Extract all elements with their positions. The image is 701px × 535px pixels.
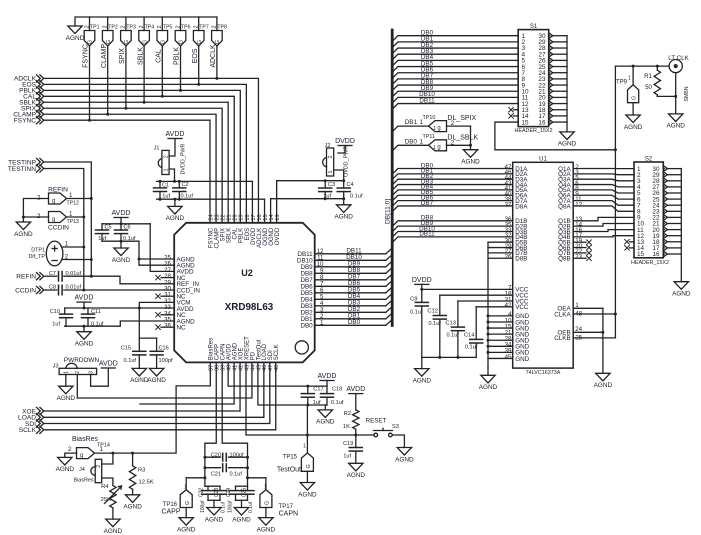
svg-text:1: 1 xyxy=(163,169,169,172)
svg-text:GND: GND xyxy=(515,356,529,363)
wire C5/C6 bottom bus to U2 pins 25/26 xyxy=(102,241,174,265)
wire TP5 to CAL xyxy=(161,46,163,96)
svg-text:S3: S3 xyxy=(392,424,399,430)
ground AGND (TP15) xyxy=(300,483,314,491)
ground AGND (C5/C6) xyxy=(120,241,122,248)
wire U1 GND pin 10 to rail xyxy=(488,321,513,323)
wire C10/C11 top bus to U2 pin33 AVDD xyxy=(65,307,175,309)
wire CLKA stub xyxy=(573,313,615,315)
wire C24/C25 ground bus xyxy=(236,499,248,501)
capacitor C20 100pf xyxy=(205,456,221,458)
svg-text:15: 15 xyxy=(522,119,530,126)
svg-text:REFIN: REFIN xyxy=(16,274,36,281)
svg-text:U2: U2 xyxy=(241,268,253,278)
wire DB11 to U1 D4B xyxy=(392,237,513,243)
svg-text:G: G xyxy=(179,40,185,44)
capacitor C22 100pf xyxy=(205,485,220,487)
ground AGND (TP9) xyxy=(626,115,640,123)
capacitor C1 1uf xyxy=(159,181,161,188)
test point TP2 xyxy=(107,17,109,31)
S1 right stub pin 26 xyxy=(549,59,550,61)
wire U1 Q8A to S2 pin 8 xyxy=(573,206,634,211)
svg-text:TP12: TP12 xyxy=(67,201,80,207)
test point TP4 xyxy=(143,17,145,31)
S2 right stub pin 17 xyxy=(663,247,664,249)
wire R1 to connector ground xyxy=(657,95,675,97)
S2 right stub pin 27 xyxy=(663,186,664,188)
svg-text:C13: C13 xyxy=(445,320,456,326)
wire U1 Q1B to S2 pin 9 xyxy=(573,217,634,220)
svg-text:ADCLK: ADCLK xyxy=(210,44,217,68)
wire DB0 to S1 pin 1 xyxy=(392,36,518,42)
wire DB2 to S1 pin 3 xyxy=(392,48,518,54)
wire TP10 pin2 to ground rail xyxy=(447,125,471,127)
svg-text:g: g xyxy=(80,453,83,459)
svg-text:C14: C14 xyxy=(464,333,475,339)
ground AGND (C19) xyxy=(349,463,363,471)
svg-text:74LVC16373A: 74LVC16373A xyxy=(526,370,561,376)
svg-text:C25: C25 xyxy=(242,488,248,497)
wire DB6 from U2 to bus xyxy=(315,285,386,287)
svg-text:DTP1: DTP1 xyxy=(31,248,45,254)
wire DB5 to U1 D6A xyxy=(392,195,513,201)
wire U2 AVDD pin to C17/C18 xyxy=(228,362,327,386)
svg-text:1uf: 1uf xyxy=(162,193,170,199)
S2 right stub pin 18 xyxy=(663,241,664,243)
svg-text:S1: S1 xyxy=(530,24,538,30)
svg-text:G: G xyxy=(197,40,203,44)
wire S1 pin15 to clock net xyxy=(495,122,616,150)
S1 right stub pin 27 xyxy=(549,53,550,55)
S1 right stub pin 30 xyxy=(549,35,550,37)
svg-text:TESTINN: TESTINN xyxy=(8,166,36,173)
test point TP5 xyxy=(161,17,163,31)
connector S1 HEADER_15X2 xyxy=(518,30,549,127)
capacitor C2 0.1uf xyxy=(178,181,180,188)
svg-text:OVDD_PWR: OVDD_PWR xyxy=(344,146,350,177)
svg-text:16: 16 xyxy=(652,251,660,258)
svg-text:AGND: AGND xyxy=(461,159,480,166)
svg-text:1: 1 xyxy=(433,145,436,151)
wire LOAD to U2 xyxy=(44,362,264,417)
svg-text:TP6: TP6 xyxy=(181,25,191,31)
svg-text:TP9: TP9 xyxy=(616,79,628,85)
wire J1 pin1 to bus xyxy=(169,169,174,181)
svg-text:AVDD: AVDD xyxy=(318,373,337,380)
wire S3 to ground xyxy=(392,435,404,448)
wire VCC row2 to C12 xyxy=(440,294,513,296)
svg-text:TP11: TP11 xyxy=(423,134,435,140)
wire U1 Q6A to S2 pin 6 xyxy=(573,195,634,199)
ground AGND (R4) xyxy=(106,519,120,527)
power AVDD (C17/C18) xyxy=(320,380,334,382)
wire U1 GND pin 34 to rail xyxy=(488,345,513,347)
svg-text:AGND: AGND xyxy=(672,291,691,298)
svg-text:1: 1 xyxy=(433,126,436,132)
svg-text:J2: J2 xyxy=(325,143,331,149)
S2 pin 13 no-connect xyxy=(630,241,635,243)
svg-text:g: g xyxy=(52,217,55,223)
S1 right stub pin 29 xyxy=(549,41,550,43)
S1 right stub pin 19 xyxy=(549,103,550,105)
svg-text:0.1uf: 0.1uf xyxy=(410,309,423,315)
wire PWRDOWN net to U2 PD pin xyxy=(77,362,252,398)
wire TP14 net to J4 pin2 xyxy=(102,453,113,464)
svg-text:1uf: 1uf xyxy=(52,322,60,328)
svg-text:2: 2 xyxy=(68,446,72,453)
svg-text:CCDIN: CCDIN xyxy=(15,287,36,294)
ground AGND (C24/C25) xyxy=(234,508,248,516)
ground AGND (C3/C4) xyxy=(343,199,345,205)
ground AGND (U1 GND rail) xyxy=(487,367,489,375)
S1 right stub pin 23 xyxy=(549,78,550,80)
wire DB9 to U1 D2B xyxy=(392,226,513,232)
svg-text:D8A: D8A xyxy=(515,203,528,210)
svg-text:1: 1 xyxy=(328,171,334,174)
svg-text:DB11: DB11 xyxy=(419,97,435,104)
svg-text:12: 12 xyxy=(575,201,582,208)
test point TP10 DL_SPIX xyxy=(429,121,447,132)
svg-text:0.1uf: 0.1uf xyxy=(230,471,243,477)
svg-text:TP8: TP8 xyxy=(217,25,227,31)
wire TP16 stub xyxy=(186,477,205,479)
wire U2 AGND pin 41 xyxy=(140,362,234,404)
ground AGND (J3) xyxy=(59,386,73,394)
svg-text:12.5K: 12.5K xyxy=(139,479,154,485)
wire R4 to ground xyxy=(112,508,114,519)
svg-text:AGND: AGND xyxy=(347,472,366,479)
svg-text:C1: C1 xyxy=(162,183,169,189)
S2 right stub pin 26 xyxy=(663,192,664,194)
wire DB8 from U2 to bus xyxy=(315,272,386,274)
wire VCC row4 to C14 xyxy=(476,306,513,308)
wire TESTINN vertical xyxy=(44,169,84,291)
svg-text:0.1uf: 0.1uf xyxy=(331,400,344,406)
wire OGND bottom bus (U2 OGND pin to C3/C4) xyxy=(270,199,272,223)
svg-text:CAPN: CAPN xyxy=(279,511,298,518)
wire ADCLK to U2 xyxy=(44,78,259,222)
svg-text:C16: C16 xyxy=(159,346,169,352)
resistor R2 1K xyxy=(355,394,357,410)
svg-text:TP7: TP7 xyxy=(199,25,209,31)
S2 right stub pin 21 xyxy=(663,223,664,225)
svg-text:C4: C4 xyxy=(347,182,354,188)
wire U1 GND pin 39 to rail xyxy=(488,351,513,353)
svg-text:2: 2 xyxy=(96,465,102,468)
wire TP3 to SPIX xyxy=(125,46,127,108)
wire DB1 from U2 to bus xyxy=(315,318,386,320)
capacitor C16 100pf xyxy=(156,338,158,351)
svg-text:HEADER_15X2: HEADER_15X2 xyxy=(514,128,552,134)
svg-text:OVDD: OVDD xyxy=(275,227,281,245)
wire DB7 to S1 pin 8 xyxy=(392,79,518,85)
S2 right stub pin 29 xyxy=(663,174,664,176)
test point TP9 xyxy=(632,66,634,85)
wire U1 unused D5B-D8B ground rail xyxy=(488,241,513,243)
svg-text:TP1: TP1 xyxy=(90,25,100,31)
svg-text:C19: C19 xyxy=(343,441,353,447)
wire U1 Q2A to S2 pin 2 xyxy=(573,173,634,176)
wire decoupling ground bus xyxy=(422,356,476,358)
svg-text:AGND: AGND xyxy=(66,35,85,42)
svg-text:AGND: AGND xyxy=(14,231,33,238)
svg-text:AGND: AGND xyxy=(413,377,432,384)
resistor R3 12.5K xyxy=(132,453,134,466)
wire DB8 to S1 pin 9 xyxy=(392,85,518,91)
wire DB4 to U1 D5A xyxy=(392,190,513,196)
svg-text:CCDIN: CCDIN xyxy=(48,225,69,232)
wire DB10 from U2 to bus xyxy=(315,259,386,261)
svg-text:0.1uf: 0.1uf xyxy=(350,193,363,199)
svg-text:C5: C5 xyxy=(105,225,112,231)
wire CAL to U2 xyxy=(44,96,235,222)
svg-text:48: 48 xyxy=(274,365,280,371)
svg-text:13: 13 xyxy=(275,214,281,220)
S1 right stub pin 28 xyxy=(549,47,550,49)
wire DTP1 pin2 xyxy=(62,259,92,261)
wire XRESET net to R2/S3 xyxy=(246,362,374,435)
svg-text:DB7: DB7 xyxy=(421,200,434,207)
power DVDD (U1) xyxy=(415,283,429,285)
wire U1 Q7A to S2 pin 7 xyxy=(573,201,634,206)
svg-text:NC: NC xyxy=(177,325,187,332)
capacitor C25 0.1uf xyxy=(247,486,249,490)
wire OGND bottom bus (C1/C2 to U2 OGND pin) xyxy=(157,198,265,200)
svg-text:37: 37 xyxy=(505,201,512,208)
svg-text:SCLK: SCLK xyxy=(19,427,37,434)
svg-text:AGND: AGND xyxy=(166,215,185,222)
wire TP1 to FSYNC xyxy=(89,46,91,120)
svg-text:AGND: AGND xyxy=(112,257,131,264)
svg-text:U1: U1 xyxy=(539,157,547,163)
ground AGND (C9-C14) xyxy=(421,357,423,368)
ground AGND (TP10/TP11) xyxy=(463,150,477,158)
wire C17/C18 ground bus xyxy=(308,404,327,406)
svg-text:G: G xyxy=(88,40,94,44)
wire FSYNC to U2 xyxy=(44,120,210,223)
wire U1 GND pin 45 to rail xyxy=(488,357,513,359)
wire AVDD stem xyxy=(120,218,122,224)
wire TP12 pin2 xyxy=(23,199,48,223)
svg-text:G: G xyxy=(215,40,221,44)
wire C5/C6 top bus to U2 pin27 xyxy=(102,223,150,225)
svg-text:FSYNC: FSYNC xyxy=(14,117,37,124)
test point TP1 xyxy=(89,17,91,31)
test point TP12 xyxy=(49,193,67,204)
wire DB4 from U2 to bus xyxy=(315,298,386,300)
svg-text:TP4: TP4 xyxy=(145,25,155,31)
capacitor C6 0.1uf xyxy=(120,224,122,230)
svg-text:AGND: AGND xyxy=(257,526,276,533)
wire DB3 to S1 pin 4 xyxy=(392,54,518,60)
wire SDI to U2 xyxy=(44,362,270,423)
svg-text:C6: C6 xyxy=(124,224,131,230)
svg-text:AGND: AGND xyxy=(123,504,142,511)
svg-text:DB0: DB0 xyxy=(300,323,313,330)
svg-text:g: g xyxy=(52,198,55,204)
ground AGND (C16) xyxy=(149,368,163,376)
svg-text:AGND: AGND xyxy=(57,395,76,402)
wire DB6 to U1 D7A xyxy=(392,201,513,207)
S2 right stub pin 22 xyxy=(663,216,664,218)
svg-text:CLKB: CLKB xyxy=(554,335,570,342)
wire LT CLK to ground xyxy=(675,73,677,114)
U1 Q5B no-connect xyxy=(573,241,586,243)
capacitor C5 1uf xyxy=(101,224,103,230)
wire OEA to ground rail xyxy=(573,307,603,309)
wire OEA/OEB ground rail xyxy=(602,308,604,373)
S2 right stub pin 30 xyxy=(663,168,664,170)
capacitor C15 0.1uf xyxy=(133,350,146,352)
resistor R1 50 xyxy=(656,66,658,70)
S1 right stub pin 21 xyxy=(549,90,550,92)
svg-text:C2: C2 xyxy=(182,182,189,188)
S1 right stub pin 22 xyxy=(549,84,550,86)
test point TP11 DL_SBLK xyxy=(429,140,447,151)
wire DB7 from U2 to bus xyxy=(315,279,386,281)
svg-text:1K: 1K xyxy=(343,424,350,430)
U1 Q7B no-connect xyxy=(573,252,586,254)
op-amp U1 74LVC16373A (latch outline) xyxy=(513,162,574,368)
svg-text:0.1uf: 0.1uf xyxy=(465,345,478,351)
svg-text:1: 1 xyxy=(100,446,104,453)
svg-text:C24: C24 xyxy=(226,488,232,497)
svg-text:100pf: 100pf xyxy=(200,500,206,513)
svg-text:CAL: CAL xyxy=(156,49,163,63)
wire CAPN from U2 xyxy=(222,362,247,486)
wire VCC row1 xyxy=(422,288,513,290)
svg-text:AVDD: AVDD xyxy=(346,386,365,393)
wire CCDIN to U2 pin30 xyxy=(64,289,174,291)
ground AGND (TP14) xyxy=(58,457,72,465)
wire DTP1 pin1 xyxy=(62,246,84,248)
svg-text:g: g xyxy=(437,145,440,151)
ground AGND (C22/C23) xyxy=(207,508,221,516)
S2 right stub pin 16 xyxy=(663,253,664,255)
svg-text:AGND: AGND xyxy=(334,214,353,221)
svg-text:XRD98L63: XRD98L63 xyxy=(225,302,274,313)
wire DB3 from U2 to bus xyxy=(315,305,386,307)
svg-text:TP3: TP3 xyxy=(126,25,136,31)
ground AGND (TP16) xyxy=(179,518,193,526)
svg-text:45: 45 xyxy=(505,354,512,361)
svg-text:AGND: AGND xyxy=(479,384,498,391)
wire DB10 to U1 D3B xyxy=(392,232,513,238)
wire TP14 pin2 to ground xyxy=(65,453,77,457)
svg-text:C18: C18 xyxy=(332,387,342,393)
svg-text:3: 3 xyxy=(88,371,94,374)
svg-text:DB0: DB0 xyxy=(348,319,361,326)
svg-text:AGND: AGND xyxy=(205,516,224,523)
wire EOS to U2 xyxy=(44,84,247,222)
svg-text:AGND: AGND xyxy=(56,466,75,473)
svg-text:1: 1 xyxy=(303,444,306,450)
S1 right stub pin 18 xyxy=(549,109,550,111)
svg-text:Q8A: Q8A xyxy=(558,203,571,210)
capacitor C10 1uf xyxy=(64,308,66,314)
wire BiasRes from U2 to TP14 xyxy=(95,362,210,453)
svg-text:26: 26 xyxy=(505,254,512,261)
ground AGND (TP12/TP13) xyxy=(16,222,30,230)
svg-text:DVDD_PWR: DVDD_PWR xyxy=(181,144,187,175)
svg-text:2: 2 xyxy=(163,155,169,158)
svg-text:AGND: AGND xyxy=(624,124,643,131)
svg-text:1: 1 xyxy=(64,371,70,374)
wire VCC row3 to C13 xyxy=(458,300,513,302)
svg-text:R4: R4 xyxy=(101,484,109,490)
ground AGND (C10/C11) xyxy=(83,326,85,332)
test point TP7 xyxy=(198,17,200,31)
svg-text:J3: J3 xyxy=(53,364,59,370)
S2 right stub pin 23 xyxy=(663,210,664,212)
wire U1 GND pin 21 to rail xyxy=(488,333,513,335)
wire DB10 to S1 pin 11 xyxy=(392,97,518,103)
svg-text:C3: C3 xyxy=(328,182,335,188)
wire DB0 from U2 to bus xyxy=(315,324,386,326)
svg-text:TP2: TP2 xyxy=(108,25,118,31)
capacitor C8 0.01uf xyxy=(58,285,60,295)
svg-text:1: 1 xyxy=(628,76,631,82)
wire TP10/TP11 ground rail xyxy=(470,126,472,150)
capacitor C7 0.01uf xyxy=(58,272,60,282)
svg-text:AVDD: AVDD xyxy=(112,210,131,217)
ground AGND (top-left) xyxy=(68,26,82,34)
svg-text:G: G xyxy=(306,464,312,468)
svg-text:G: G xyxy=(632,96,638,100)
svg-text:TestOut: TestOut xyxy=(277,466,301,473)
resistor R4 25K (trimmer) xyxy=(110,486,116,508)
svg-text:AGND: AGND xyxy=(177,526,196,533)
S2 right stub pin 20 xyxy=(663,229,664,231)
wire DB11 to S1 pin 12 xyxy=(392,104,518,110)
ground AGND (C17/C18) xyxy=(324,405,326,410)
svg-text:AGND: AGND xyxy=(594,382,613,389)
svg-text:C21: C21 xyxy=(211,471,221,477)
S2 right stub pin 28 xyxy=(663,180,664,182)
svg-text:C12: C12 xyxy=(427,309,438,315)
connector J1 DVDD_PWR xyxy=(162,150,169,174)
svg-text:G: G xyxy=(142,40,148,44)
S2 right stub pin 19 xyxy=(663,235,664,237)
wire CCDIN left xyxy=(44,289,57,291)
svg-text:AGND: AGND xyxy=(666,123,685,130)
svg-text:G: G xyxy=(265,501,271,505)
svg-text:G: G xyxy=(106,40,112,44)
wire TP7 to EOS xyxy=(198,46,200,84)
svg-text:C7: C7 xyxy=(49,271,56,277)
connector J4 BiasRes jumper xyxy=(95,459,102,482)
capacitor C12 0.1uf xyxy=(433,315,446,317)
svg-text:C17: C17 xyxy=(313,387,323,393)
svg-text:AVDD: AVDD xyxy=(75,295,94,302)
wire U1 GND pin 28 to rail xyxy=(488,339,513,341)
wire AGND bus for TP1-TP8 xyxy=(75,17,217,26)
svg-text:2: 2 xyxy=(75,371,81,374)
wire AVDD stem (C10/C11) xyxy=(83,302,85,308)
capacitor C23 0.1uf xyxy=(219,486,221,490)
capacitor C3 1uf xyxy=(324,181,326,188)
power AVDD (R2) xyxy=(349,393,363,395)
test point TP13 xyxy=(49,212,67,223)
svg-text:EOS: EOS xyxy=(192,48,199,63)
op-amp U2 XRD98L63 (main IC outline) xyxy=(174,223,315,363)
test point TP3 xyxy=(125,17,127,31)
wire TESTINP vertical xyxy=(44,162,92,276)
svg-text:0.1uf: 0.1uf xyxy=(447,333,460,339)
wire TestOut from U2 to TP15 xyxy=(258,362,308,453)
wire TP2 to CLAMP xyxy=(107,46,109,114)
svg-text:C10: C10 xyxy=(50,309,60,315)
